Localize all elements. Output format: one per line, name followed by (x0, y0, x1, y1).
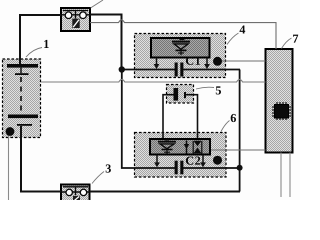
wire thin sense line battery to box7 with hops (41, 79, 266, 82)
wire C1 bus (122, 69, 241, 71)
wire battery- bottom to box 3 (21, 126, 61, 192)
wire thin line box6 module to box7 (210, 149, 266, 151)
controller chip icon in box 7 (272, 102, 291, 120)
label 6 with leader (221, 121, 230, 132)
wire thin line box4 dot to box7 (221, 60, 266, 62)
capacitor C1 plates (175, 63, 178, 77)
diode arrow symbol in box 6 (186, 141, 188, 155)
capacitor C2 plates (175, 161, 178, 175)
capacitor C3 in box 5 (174, 88, 179, 101)
wire box5 left loop into module 6 (163, 95, 174, 140)
label C1 (186, 57, 200, 65)
node junction at 240,167.5 (237, 165, 243, 171)
contactor 3 coil (73, 196, 80, 202)
wire box7 bottom stubs (281, 153, 290, 198)
module 4 terminal drop right with arrow (206, 58, 208, 65)
contactor box 3 (61, 185, 90, 202)
transistor pair symbol in box 6 (193, 141, 202, 154)
battery tap dot (6, 127, 15, 136)
wire battery+ to box 2 (20, 15, 61, 64)
label 7 with leader (282, 38, 292, 49)
module box 6 (dashed enclosure) (135, 133, 227, 178)
contactor 2 contacts (63, 10, 88, 12)
label C2 (186, 157, 200, 165)
module 4 terminal drop left with arrow (156, 58, 158, 65)
thyristor symbol U1 in box 4 (172, 39, 190, 55)
contactor 3 contacts (63, 186, 88, 188)
wire battery negative thin tap (8, 134, 10, 200)
controller box 7 (266, 49, 293, 153)
wire box 2 to vertical drop (90, 15, 122, 69)
node dot in box 6 (213, 156, 222, 165)
wire box5 right loop into module 6 (186, 95, 198, 140)
power module rect in box 6 (150, 139, 210, 155)
label 3 with leader (92, 172, 104, 184)
wire left vertical to C2 bus (122, 70, 240, 169)
contactor 2 coil (72, 19, 79, 28)
module 6 terminal drop left with arrow (156, 155, 158, 163)
capacitor box 5 (dashed enclosure) (167, 85, 194, 104)
battery pack box 1 (dashed enclosure) (3, 59, 41, 138)
capacitor module box 4 (dashed enclosure) (135, 34, 226, 78)
wire bottom bus box3 to right vertical (90, 191, 241, 193)
label 1 with leader (26, 48, 42, 58)
wire thin control line from box2 to box7 top with hop (90, 20, 276, 49)
IGBT module rect in box 4 (151, 38, 210, 58)
label 4 with leader (227, 33, 239, 45)
wire label2 leader (cut off at top) (91, 0, 104, 8)
module 6 terminal drop right with arrow (202, 155, 204, 163)
contactor box 2 (61, 8, 90, 31)
node dot in box 4 (213, 57, 222, 66)
node junction at 122,69.5 (119, 66, 125, 72)
thyristor symbol U2 in box 6 (158, 140, 176, 154)
label 5 with leader (196, 87, 214, 89)
wire right vertical bus (239, 70, 241, 192)
battery cell plates (7, 64, 38, 68)
